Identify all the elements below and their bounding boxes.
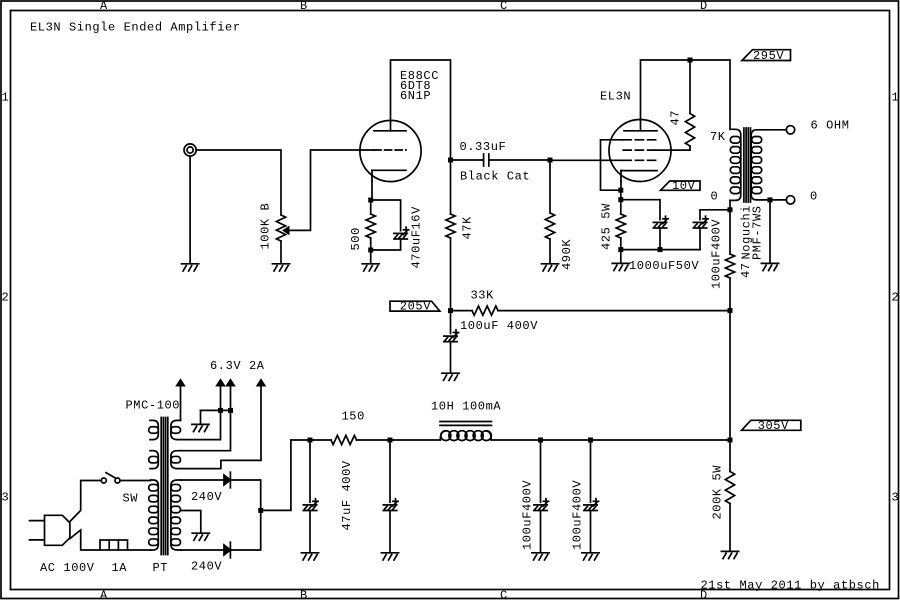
heater arrow C xyxy=(181,378,236,450)
svg-text:PMF-7WS: PMF-7WS xyxy=(751,205,765,260)
potentiometer 100K B xyxy=(276,215,288,241)
wire HT top to diode xyxy=(181,479,224,481)
wire EL3N cathode down xyxy=(620,181,622,190)
ground (heater) xyxy=(192,424,209,431)
svg-text:AC 100V: AC 100V xyxy=(40,561,95,575)
ground (HT center tap) xyxy=(192,533,209,540)
wire pot wiper to E88CC grid xyxy=(289,150,374,230)
wire to cathode bypass cap xyxy=(371,200,401,231)
resistor 425 5W (EL3N cathode) xyxy=(616,200,625,250)
svg-text:10H 100mA: 10H 100mA xyxy=(431,400,501,414)
net flag 205V xyxy=(390,300,440,314)
svg-text:6 OHM: 6 OHM xyxy=(811,118,850,132)
ground (cap2) xyxy=(381,553,398,560)
svg-text:7K: 7K xyxy=(710,130,726,144)
capacitor 0.33uF coupling xyxy=(451,154,551,166)
svg-text:100uF 400V: 100uF 400V xyxy=(460,319,538,333)
svg-text:EL3N Single Ended Amplifier: EL3N Single Ended Amplifier xyxy=(30,21,241,35)
resistor 200K 5W (bleeder) xyxy=(725,440,734,550)
wire secondary to ground xyxy=(769,200,771,262)
wire E88CC cathode xyxy=(371,181,372,200)
wire plug neutral lead xyxy=(70,530,100,550)
resistor 150 (filter) xyxy=(331,435,357,444)
svg-text:3: 3 xyxy=(892,491,900,505)
wire EL3N cathode to ground xyxy=(620,250,622,263)
ground (bleeder) xyxy=(721,551,738,558)
wire diode D2 output xyxy=(230,510,260,550)
node second filter cap xyxy=(388,438,393,443)
node cathode bottom junction xyxy=(618,247,623,252)
svg-text:47K: 47K xyxy=(461,216,475,240)
svg-text:Black Cat: Black Cat xyxy=(460,169,530,183)
ground (cap1) xyxy=(301,553,318,560)
svg-text:1: 1 xyxy=(892,91,900,105)
resistor 500 (E88CC cathode) xyxy=(366,200,375,250)
svg-text:A: A xyxy=(100,589,108,600)
wire secondary hot to terminal xyxy=(762,129,786,131)
svg-text:100uF400V: 100uF400V xyxy=(710,219,724,289)
node B+ rail end xyxy=(728,438,733,443)
capacitor 100uF400V #1 xyxy=(534,440,549,552)
diode D1 upper xyxy=(224,472,230,488)
triode U1 E88CC xyxy=(360,120,421,181)
svg-text:47uF 400V: 47uF 400V xyxy=(340,460,354,530)
capacitor 1000uF50V (cathode bypass) xyxy=(653,216,668,228)
wire heater ground stub xyxy=(200,410,202,423)
heater arrow A xyxy=(175,378,186,420)
svg-text:295V: 295V xyxy=(753,49,784,63)
wire rail right of choke xyxy=(491,439,730,441)
wire cathode junctions xyxy=(620,190,622,200)
wire plug hot lead xyxy=(70,481,101,522)
capacitor 470uF16V (cathode bypass) xyxy=(394,227,409,239)
svg-text:1A: 1A xyxy=(112,561,128,575)
node cathode bypass junction xyxy=(618,197,623,202)
svg-text:47: 47 xyxy=(669,110,683,126)
node cathode junction xyxy=(368,198,373,203)
node 33K feed junction xyxy=(728,308,733,313)
svg-text:200K 5W: 200K 5W xyxy=(711,465,725,520)
node fourth filter cap xyxy=(588,438,593,443)
wire pot bottom to ground xyxy=(280,241,282,263)
wire rail to choke xyxy=(357,439,441,441)
wire to 1000uF cap top xyxy=(621,200,660,220)
capacitor 47uF 400V #2 xyxy=(383,440,398,552)
svg-text:B: B xyxy=(300,0,308,13)
capacitor 100uF400V #2 xyxy=(584,440,599,552)
resistor 490K (grid leak) xyxy=(545,160,554,263)
wire cathode bottom bus xyxy=(621,249,700,251)
wire secondary return to terminal xyxy=(762,199,786,201)
node third filter cap xyxy=(538,438,543,443)
node cathode resistor bottom xyxy=(368,248,373,253)
wire jack sleeve to ground xyxy=(189,156,191,263)
svg-text:10V: 10V xyxy=(672,179,696,193)
node first filter cap xyxy=(308,438,313,443)
net flag 295V xyxy=(742,49,791,63)
svg-text:PMC-100: PMC-100 xyxy=(126,398,181,412)
node screen feed junction xyxy=(688,58,693,63)
svg-text:PT: PT xyxy=(153,561,169,575)
svg-text:470uF16V: 470uF16V xyxy=(410,206,424,269)
capacitor 100uF 400V (E88CC decoupling) xyxy=(444,330,459,342)
svg-text:EL3N: EL3N xyxy=(600,89,631,103)
svg-text:33K: 33K xyxy=(471,289,495,303)
svg-text:100uF400V: 100uF400V xyxy=(520,480,534,550)
ground (volume pot) xyxy=(272,264,289,271)
svg-text:2: 2 xyxy=(2,291,10,305)
svg-text:425 5W: 425 5W xyxy=(600,203,614,250)
svg-text:D: D xyxy=(700,0,708,13)
ground (EL3N cathode) xyxy=(612,263,629,270)
node secondary ground junction xyxy=(768,197,773,202)
svg-text:1000uF50V: 1000uF50V xyxy=(629,259,699,273)
svg-text:6N1P: 6N1P xyxy=(400,89,431,103)
wire bypass cap bottom xyxy=(371,239,401,250)
heater arrow D xyxy=(181,378,266,468)
svg-text:0: 0 xyxy=(810,190,818,204)
wire E88CC plate to coupling node xyxy=(391,60,451,160)
wire 205V node to filter cap xyxy=(450,311,452,334)
svg-text:C: C xyxy=(500,589,508,600)
wire coupling cap to EL3N grid xyxy=(550,159,623,161)
wire rectifier to rail riser xyxy=(261,440,291,510)
pentode U2 EL3N xyxy=(609,120,671,182)
node 1000uF bottom xyxy=(658,247,663,252)
inductor 10H 100mA choke xyxy=(440,422,492,441)
transformer T2 output Noguchi PMF-7WS xyxy=(730,128,762,202)
node primary decoupling junction xyxy=(728,207,733,212)
svg-text:500: 500 xyxy=(349,227,363,250)
svg-text:0.33uF: 0.33uF xyxy=(460,140,507,154)
svg-text:0: 0 xyxy=(711,190,719,204)
ground (205V filter) xyxy=(442,373,459,380)
svg-text:100uF400V: 100uF400V xyxy=(570,480,584,550)
net flag 305V xyxy=(742,419,801,433)
capacitor 100uF400V (plate decoupling) xyxy=(693,216,708,228)
wire B+ rail left xyxy=(291,439,331,441)
wire decoupling cap branch xyxy=(700,210,730,220)
ground (grid leak) xyxy=(541,264,558,271)
wire center tap xyxy=(180,511,200,533)
wire OPT primary bottom down xyxy=(729,200,731,209)
wire heater ground bus xyxy=(201,409,231,411)
svg-text:6.3V 2A: 6.3V 2A xyxy=(210,359,265,373)
node heater ground B xyxy=(218,408,223,413)
svg-text:240V: 240V xyxy=(191,490,222,504)
wire fuse to transformer xyxy=(128,549,151,551)
svg-text:2: 2 xyxy=(892,291,900,305)
ground (secondary) xyxy=(761,263,778,270)
wire cathode to ground xyxy=(370,250,372,263)
ground (E88CC cathode) xyxy=(362,264,379,271)
wire EL3N screen grid xyxy=(656,149,690,151)
resistor 47 (B+ dropper) xyxy=(725,210,734,311)
node rectifier output xyxy=(258,508,263,513)
resistor 33K (E88CC supply dropper) xyxy=(451,306,731,315)
capacitor 47uF 400V #1 xyxy=(303,440,318,552)
svg-text:150: 150 xyxy=(342,409,365,423)
wire diode D1 output xyxy=(230,480,260,510)
terminal 0 output xyxy=(786,196,794,204)
wire B+ down to rail xyxy=(729,311,731,440)
svg-text:3: 3 xyxy=(2,491,10,505)
node 205V junction xyxy=(448,308,453,313)
wire decoupling cap bottom xyxy=(699,228,701,250)
heater arrow B xyxy=(181,378,226,439)
svg-text:C: C xyxy=(500,0,508,13)
wire filter cap to ground xyxy=(450,342,452,372)
ground (cap3) xyxy=(532,553,549,560)
switch SW xyxy=(101,473,120,483)
wire 1000uF bottom xyxy=(659,228,661,250)
wire EL3N plate rail xyxy=(641,60,731,129)
ground (input jack) xyxy=(182,264,199,271)
label E88CC 6DT8 6N1P xyxy=(400,69,439,103)
net flag 10V xyxy=(661,179,701,193)
diode D2 lower xyxy=(224,542,230,558)
AC plug xyxy=(30,515,70,545)
wire EL3N suppressor strap to cathode xyxy=(601,140,624,190)
node cathode/suppressor junction xyxy=(618,188,623,193)
transformer T1 power PMC-100 xyxy=(149,418,181,555)
wire jack to volume pot xyxy=(196,150,281,215)
svg-text:47: 47 xyxy=(739,262,753,278)
svg-text:21st May 2011 by atbsch: 21st May 2011 by atbsch xyxy=(701,579,880,593)
node heater ground C xyxy=(228,408,233,413)
resistor 47K (plate load) xyxy=(446,160,455,311)
svg-text:100K B: 100K B xyxy=(259,203,273,250)
resistor 47 (screen stopper) xyxy=(685,60,694,150)
terminal 6 OHM output xyxy=(786,126,794,134)
svg-text:SW: SW xyxy=(123,491,139,505)
svg-text:305V: 305V xyxy=(758,419,789,433)
wire HT bottom to diode xyxy=(181,549,224,551)
fuse 1A xyxy=(100,540,128,550)
svg-text:A: A xyxy=(100,0,108,13)
ground (cap4) xyxy=(582,553,599,560)
svg-text:205V: 205V xyxy=(400,300,431,314)
node plate-cap junction xyxy=(448,158,453,163)
svg-text:1: 1 xyxy=(2,91,10,105)
wire switch to transformer xyxy=(120,480,151,482)
node coupling-grid junction xyxy=(548,158,553,163)
svg-text:240V: 240V xyxy=(191,560,222,574)
input jack J1 xyxy=(184,144,196,156)
svg-text:490K: 490K xyxy=(560,239,574,270)
svg-text:B: B xyxy=(300,589,308,600)
